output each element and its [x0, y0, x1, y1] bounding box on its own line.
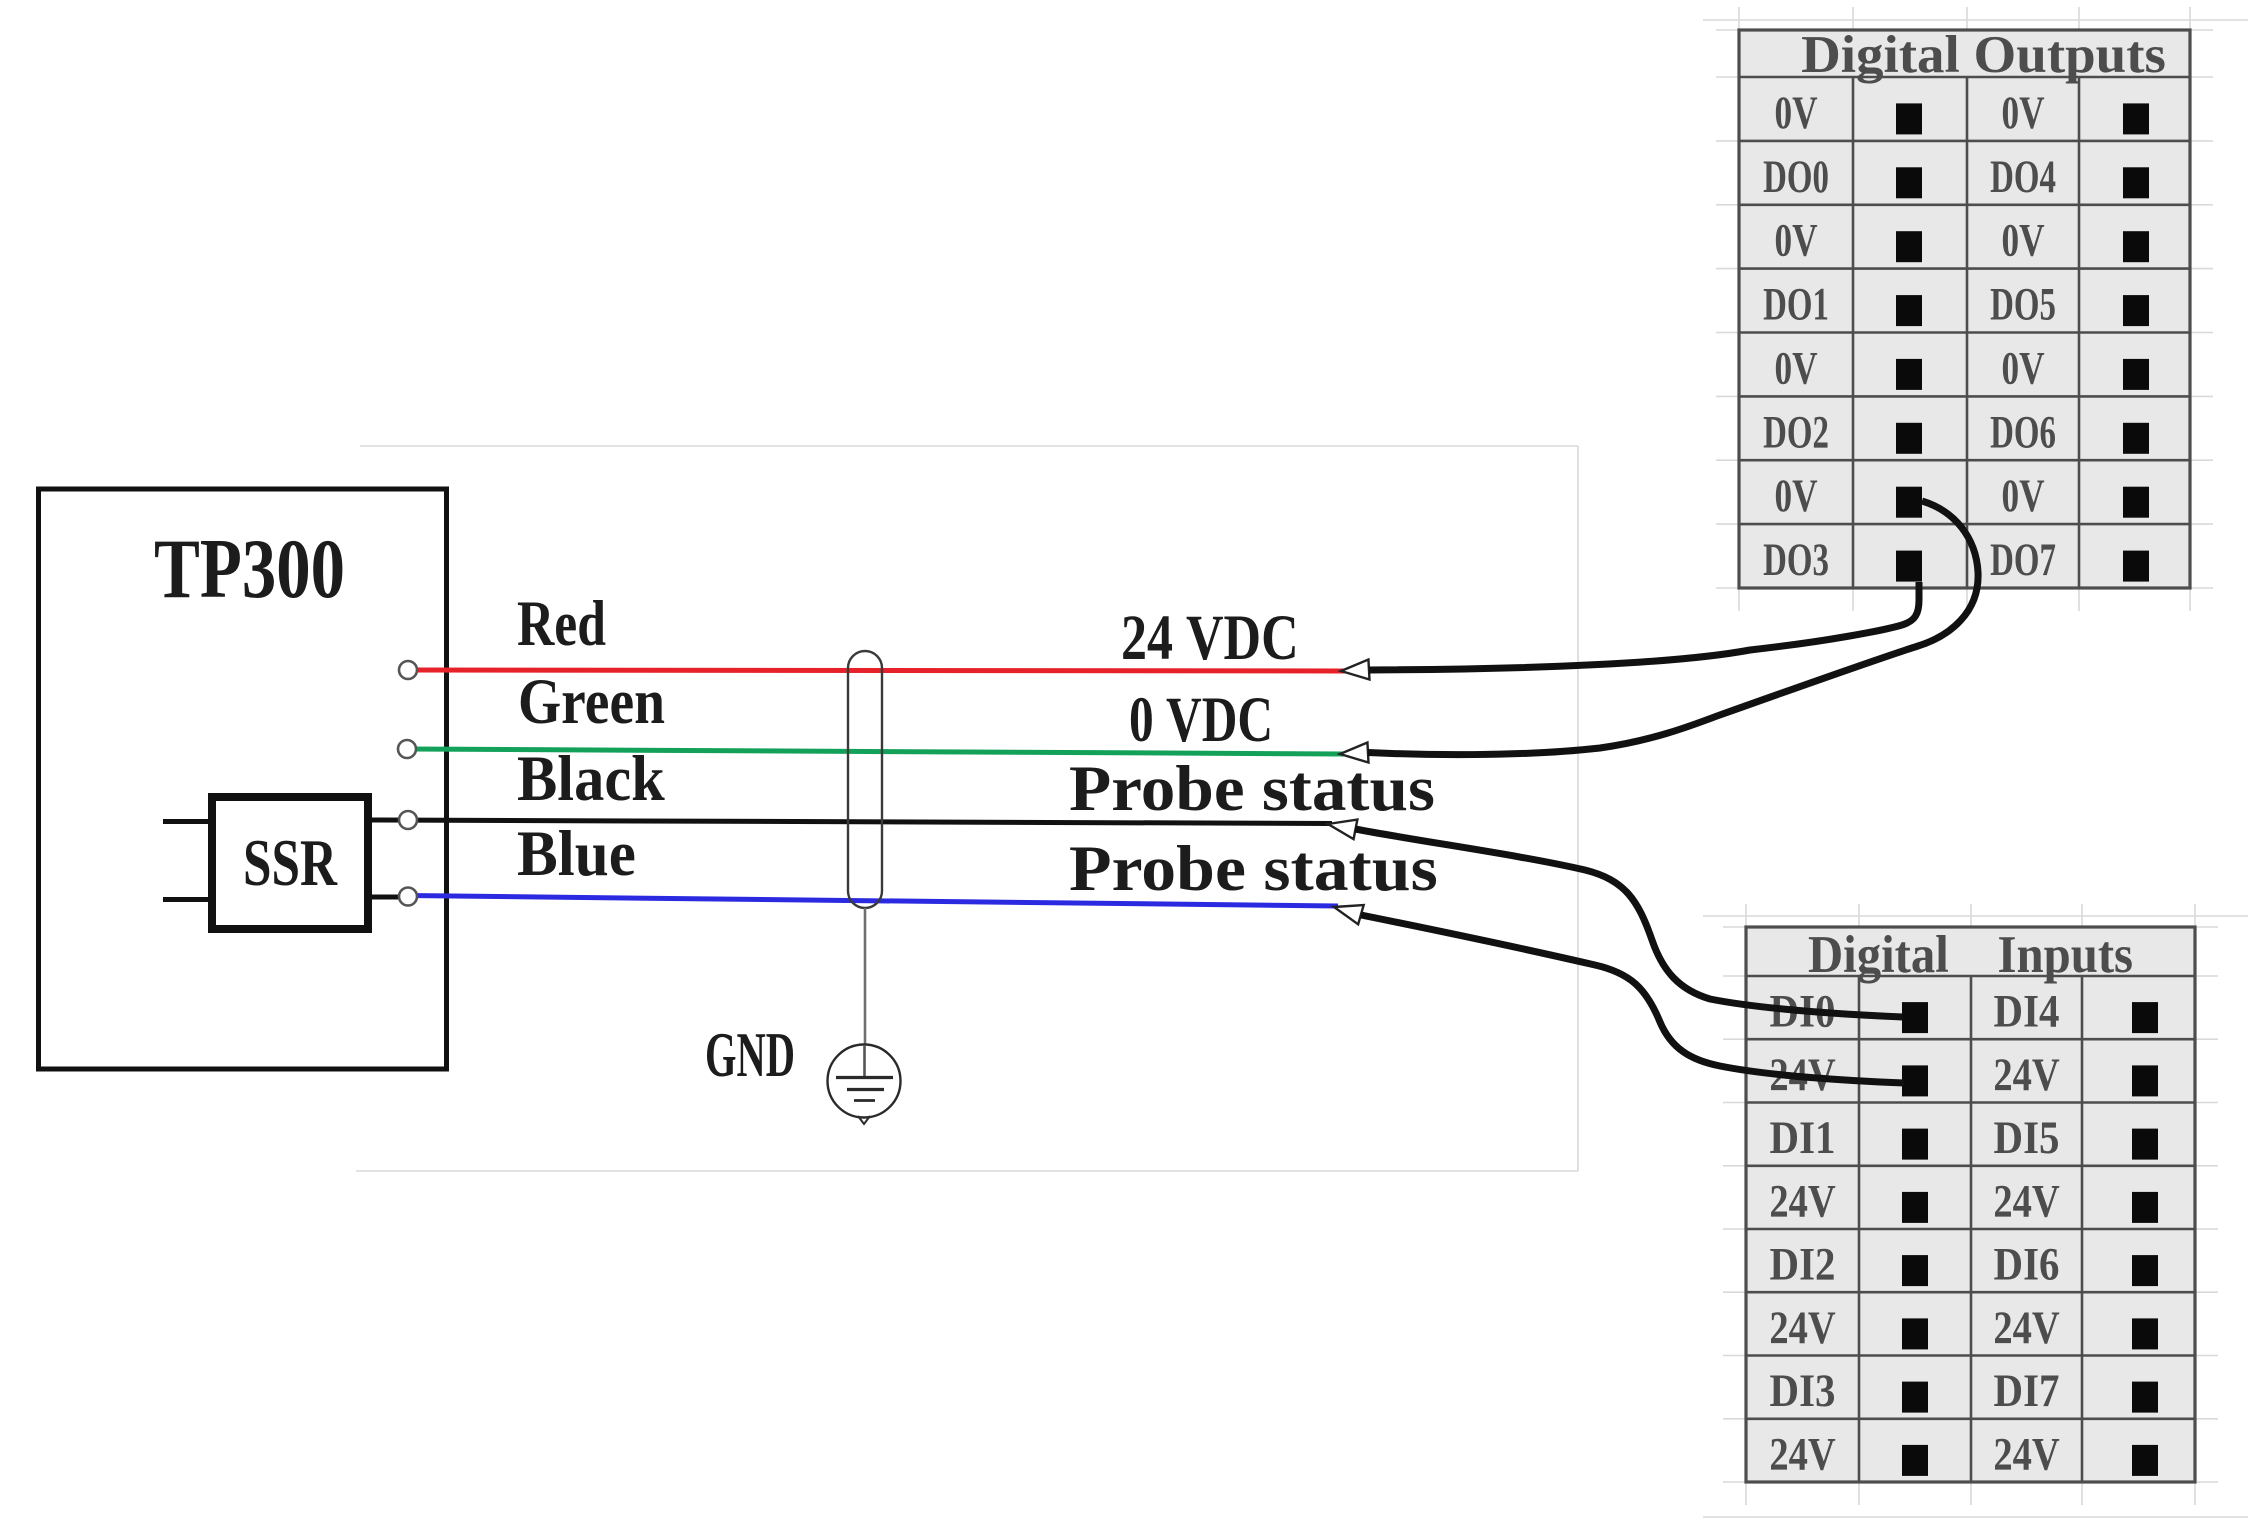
- svg-text:DI1: DI1: [1770, 1112, 1836, 1164]
- svg-text:24V: 24V: [1769, 1302, 1835, 1353]
- terminal square DO3 row 8: [1896, 551, 1922, 582]
- terminal square DO0 row 2: [1896, 167, 1922, 198]
- svg-text:DI3: DI3: [1770, 1365, 1836, 1417]
- cable shield: [848, 651, 882, 908]
- svg-text:DO5: DO5: [1990, 278, 2056, 330]
- svg-text:Blue: Blue: [517, 817, 636, 889]
- wire DO3 to 24VDC arrow: [1369, 582, 1919, 670]
- svg-text:GND: GND: [705, 1019, 795, 1091]
- svg-text:DI6: DI6: [1994, 1238, 2060, 1290]
- svg-text:DO2: DO2: [1763, 406, 1829, 458]
- pin circle black: [399, 811, 417, 829]
- terminal square DI7 row 7 right: [2132, 1382, 2158, 1413]
- svg-text:0 VDC: 0 VDC: [1129, 685, 1273, 756]
- svg-text:Green: Green: [518, 666, 665, 738]
- svg-text:24V: 24V: [1993, 1049, 2059, 1100]
- svg-text:DI5: DI5: [1994, 1112, 2060, 1164]
- terminal square 0V row 5: [1896, 359, 1922, 390]
- terminal square DI4 row 1 right: [2132, 1002, 2158, 1033]
- terminal square 24V row 2 right: [2132, 1065, 2158, 1096]
- svg-text:0V: 0V: [2001, 342, 2044, 394]
- terminal square 0V row 1: [1896, 103, 1922, 134]
- wire SSR left lead bottom: [163, 897, 209, 902]
- svg-text:24 VDC: 24 VDC: [1121, 602, 1299, 674]
- wire 0V to 0VDC arrow: [1368, 501, 1978, 755]
- svg-text:24V: 24V: [1769, 1429, 1835, 1480]
- wire green 0 VDC: [410, 749, 1344, 754]
- terminal square DI3 row 7: [1902, 1382, 1928, 1413]
- svg-text:24V: 24V: [1993, 1429, 2059, 1480]
- svg-text:0V: 0V: [1774, 214, 1817, 266]
- terminal square 24V row 6 right: [2132, 1318, 2158, 1349]
- svg-text:24V: 24V: [1769, 1176, 1835, 1227]
- svg-text:DI7: DI7: [1994, 1365, 2060, 1417]
- svg-text:DO7: DO7: [1990, 533, 2056, 585]
- wire red 24 VDC: [410, 670, 1345, 671]
- svg-text:Black: Black: [517, 742, 665, 814]
- terminal square 24V row 2: [1902, 1065, 1928, 1096]
- svg-text:0V: 0V: [1774, 469, 1817, 521]
- svg-text:0V: 0V: [2001, 214, 2044, 266]
- wire shield to ground: [864, 908, 867, 1046]
- ground symbol: [828, 1045, 901, 1125]
- terminal square DO1 row 4: [1896, 295, 1922, 326]
- svg-text:0V: 0V: [2001, 86, 2044, 138]
- device TP300 box: [39, 489, 447, 1069]
- terminal square 0V row 3 right: [2123, 231, 2149, 262]
- terminal square DI6 row 5 right: [2132, 1255, 2158, 1286]
- terminal square DO5 row 4 right: [2123, 295, 2149, 326]
- svg-text:Red: Red: [517, 587, 606, 659]
- svg-text:Digital Inputs: Digital Inputs: [1808, 926, 2133, 984]
- svg-text:Digital Outputs: Digital Outputs: [1801, 25, 2166, 84]
- component SSR box: [212, 797, 368, 929]
- svg-text:DO6: DO6: [1990, 406, 2056, 458]
- wire SSR left lead top: [163, 819, 209, 824]
- terminal square DO2 row 6: [1896, 423, 1922, 454]
- terminal square DO4 row 2 right: [2123, 167, 2149, 198]
- terminal square 24V row 8 right: [2132, 1445, 2158, 1476]
- svg-text:TP300: TP300: [154, 521, 345, 616]
- svg-text:Probe status: Probe status: [1069, 832, 1438, 904]
- terminal square 0V row 7 right: [2123, 487, 2149, 518]
- arrowhead red wire: [1340, 660, 1369, 681]
- terminal square DI2 row 5: [1902, 1255, 1928, 1286]
- wire blue arrow to 24V: [1361, 915, 1904, 1083]
- svg-text:24V: 24V: [1993, 1302, 2059, 1353]
- wire blue Probe status: [408, 896, 1338, 907]
- arrowhead black wire: [1326, 814, 1357, 839]
- pin circle green: [398, 740, 416, 758]
- wire black Probe status: [371, 820, 1332, 824]
- arrowhead green wire: [1339, 743, 1368, 764]
- terminal square DI0 row 1: [1902, 1002, 1928, 1033]
- terminal square 0V row 1 right: [2123, 103, 2149, 134]
- pin circle red: [399, 661, 417, 679]
- svg-text:DO0: DO0: [1763, 150, 1829, 202]
- terminal square 0V row 5 right: [2123, 359, 2149, 390]
- svg-text:DO3: DO3: [1763, 533, 1829, 585]
- svg-text:0V: 0V: [1774, 342, 1817, 394]
- terminal square 24V row 8: [1902, 1445, 1928, 1476]
- svg-text:DO1: DO1: [1763, 278, 1829, 330]
- pin circle blue: [399, 888, 417, 906]
- terminal square DO7 row 8 right: [2123, 551, 2149, 582]
- svg-text:SSR: SSR: [243, 825, 338, 899]
- wire black arrow to DI0: [1355, 829, 1903, 1017]
- terminal square DI5 row 3 right: [2132, 1129, 2158, 1160]
- terminal square 24V row 6: [1902, 1318, 1928, 1349]
- svg-text:24V: 24V: [1993, 1176, 2059, 1227]
- svg-text:DI4: DI4: [1994, 985, 2060, 1037]
- terminal square 24V row 4: [1902, 1192, 1928, 1223]
- wire SSR lead to blue pin: [371, 895, 408, 900]
- terminal block Digital Outputs: [1739, 25, 2190, 588]
- terminal block Digital Inputs: [1746, 926, 2195, 1482]
- svg-text:Probe status: Probe status: [1069, 752, 1435, 825]
- terminal square 24V row 4 right: [2132, 1192, 2158, 1223]
- terminal square DI1 row 3: [1902, 1129, 1928, 1160]
- arrowhead blue wire: [1331, 897, 1363, 924]
- svg-text:0V: 0V: [2001, 469, 2044, 521]
- terminal square 0V row 3: [1896, 231, 1922, 262]
- svg-text:DO4: DO4: [1990, 150, 2056, 202]
- terminal square DO6 row 6 right: [2123, 423, 2149, 454]
- terminal square 0V row 7: [1896, 487, 1922, 518]
- svg-text:0V: 0V: [1774, 86, 1817, 138]
- svg-text:DI2: DI2: [1770, 1238, 1836, 1290]
